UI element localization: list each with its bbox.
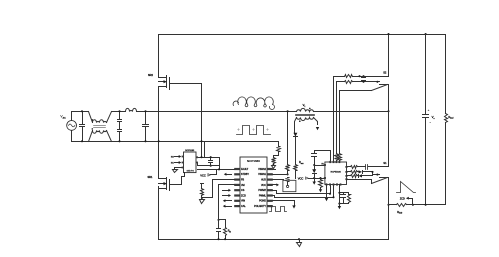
svg-text:VM: VM xyxy=(241,184,245,187)
resistor R9 kelvin xyxy=(339,161,341,163)
svg-text:ZCD: ZCD xyxy=(399,213,403,215)
svg-text:SR2: SR2 xyxy=(148,73,154,77)
svg-text:VSNS2: VSNS2 xyxy=(258,168,267,171)
svg-text:ZCD: ZCD xyxy=(400,197,405,200)
resistor R4 line-N sense lower xyxy=(272,158,276,164)
capacitor C6 boot at S2 xyxy=(363,77,365,78)
wire: +output top rail xyxy=(159,34,446,36)
svg-text:CAL: CAL xyxy=(241,205,246,208)
ground at R7 xyxy=(319,189,322,192)
wire: AC line-L after choke xyxy=(112,111,126,113)
wire: fast leg switch node to S1 xyxy=(388,112,390,167)
capacitor C8 at U2 VSS xyxy=(343,193,345,195)
wire: SR2 gate net vertical xyxy=(201,84,203,158)
ground at U3 xyxy=(173,170,178,173)
arrow into U3 IN1 xyxy=(175,162,179,164)
svg-text:PWML: PWML xyxy=(259,194,267,197)
wire: U2 row to S1 drain bar xyxy=(347,166,351,168)
wire: slow-leg bottom (SR1 source to bottom rail) xyxy=(158,187,160,240)
resistor R11 S2 boot row xyxy=(334,76,345,78)
node: switch node at fast leg xyxy=(387,110,389,112)
svg-text:VCC: VCC xyxy=(261,184,266,187)
resistor R6 VM filter xyxy=(219,220,226,228)
CMC core xyxy=(94,126,106,128)
wire: bottom rail riser xyxy=(388,205,390,240)
svg-text:VCC: VCC xyxy=(200,174,206,178)
node: S2 drain at top rail xyxy=(387,33,389,35)
wire: VCC rail mid xyxy=(197,163,220,166)
arrow out of VCC pin xyxy=(273,184,277,186)
capacitor C4 VM filter xyxy=(218,220,220,229)
wire: U2 bottom pin1 xyxy=(326,185,328,198)
capacitor CX1 across line xyxy=(82,112,84,142)
svg-text:AC: AC xyxy=(63,116,66,119)
arrow out of VIN pin xyxy=(226,200,232,202)
wire: VCC rail upper xyxy=(197,157,220,159)
node: VM filter xyxy=(217,219,219,221)
node: top rail at Vo xyxy=(425,33,427,35)
svg-text:S2: S2 xyxy=(383,71,387,75)
capacitor C2 decoupling xyxy=(210,158,212,160)
wire: U2 boot rail vertical xyxy=(333,77,335,163)
arrow out of CAL pin xyxy=(226,206,232,208)
source VAC xyxy=(71,112,73,142)
svg-text:o: o xyxy=(434,118,435,120)
ground at U2 VSS xyxy=(339,204,341,207)
CMC polarity dots xyxy=(92,119,94,121)
svg-text:IN1: IN1 xyxy=(171,162,174,164)
wire: line-L to boost inductor xyxy=(137,111,235,113)
resistor Raux xyxy=(294,165,298,171)
U3 pin stubs xyxy=(182,156,184,158)
svg-text:S1: S1 xyxy=(383,161,387,165)
wire: PWMH route to driver xyxy=(273,185,331,194)
resistor R14 at U2 VSS xyxy=(348,193,350,195)
svg-text:GND PG: GND PG xyxy=(187,171,195,173)
svg-text:STDBY: STDBY xyxy=(241,173,249,176)
wire: aux vertical from AC-N xyxy=(204,142,206,158)
wire: bottom return rail xyxy=(159,239,389,241)
svg-text:ZCD: ZCD xyxy=(241,194,246,197)
svg-text:FB: FB xyxy=(241,178,244,181)
transistor SR2 xyxy=(159,77,167,79)
wire: VM route xyxy=(219,185,235,220)
arrow into CS pin xyxy=(223,190,229,192)
svg-text:VSNS1: VSNS1 xyxy=(258,173,267,176)
wire: V1 secondary left lead xyxy=(295,118,297,133)
node: AC-N to SR half-bridge midpoint xyxy=(158,140,160,142)
resistor R10 S2 gate row xyxy=(337,81,345,83)
wire: VCC jog to FAULT row xyxy=(211,170,217,175)
wire: AUX row to probe box xyxy=(273,179,284,181)
wire: line-L under boost inductor xyxy=(235,111,297,113)
probe box xyxy=(283,180,296,191)
resistor R2b line-L sense lower xyxy=(286,178,290,182)
resistor Rzcd xyxy=(389,204,397,206)
resistor R13 S1 gate xyxy=(347,175,351,177)
arrow into STDBY pin xyxy=(227,174,232,176)
svg-text:1: 1 xyxy=(304,106,305,108)
wire: boot rail to gate net xyxy=(315,151,331,163)
ground at bottom rail xyxy=(298,238,300,240)
svg-text:NCP1680: NCP1680 xyxy=(247,159,260,163)
arrow terminal into VSNS2 row xyxy=(272,166,276,169)
svg-text:+: + xyxy=(428,108,430,112)
capacitor CY1 upper xyxy=(119,112,121,120)
transistor S1 xyxy=(380,166,389,168)
transformer V1 secondary xyxy=(297,118,314,121)
svg-text:FAULT: FAULT xyxy=(241,168,249,171)
wire: VSNS2 row xyxy=(273,169,276,171)
diode D2 bootstrap xyxy=(314,157,316,170)
svg-text:IN2: IN2 xyxy=(171,156,174,158)
wire: slow-leg mid (SR2 source to AC-N node and SR1 drain) xyxy=(158,88,160,179)
wire: V1 secondary right lead xyxy=(314,118,318,125)
op-amp U1 NCP1680 body xyxy=(240,157,267,213)
capacitor CF across lines xyxy=(145,112,147,142)
wire: AC line-N from source to SR midpoint and divider xyxy=(72,141,279,143)
svg-text:VIN: VIN xyxy=(241,200,245,203)
waveform: switch-node square wave xyxy=(237,126,271,135)
ground at VCC node xyxy=(314,179,316,182)
capacitor C9 output Vo xyxy=(425,35,427,115)
ground at V1 secondary xyxy=(316,127,319,130)
svg-text:VCC: VCC xyxy=(298,177,304,181)
inductor L1 boost xyxy=(233,97,274,110)
inductor LF in line-L xyxy=(126,108,137,111)
wire: S2 kelvin row xyxy=(340,90,372,92)
op-amp U3 SR driver body xyxy=(184,152,197,173)
node: PWMH at driver xyxy=(329,193,331,195)
svg-text:PGND: PGND xyxy=(259,200,266,203)
wire: U3 gnd pin xyxy=(175,168,182,170)
svg-text:CS: CS xyxy=(241,189,245,192)
svg-text:SR1: SR1 xyxy=(147,175,153,179)
wire: FAULT row xyxy=(198,169,235,171)
wire: PGND route xyxy=(273,201,295,206)
capacitor C5 bootstrap xyxy=(314,151,316,154)
op-amp U2 gate driver body xyxy=(325,162,347,185)
ground at PGND xyxy=(292,205,295,208)
wire: line-L from CT to fast leg xyxy=(314,111,389,113)
wire: PWML route to driver xyxy=(273,185,334,198)
wire: VB to U2 xyxy=(315,165,325,167)
diode D1 aux xyxy=(293,133,297,137)
arrow into ZCD pin xyxy=(223,195,229,197)
transistor SR1 xyxy=(159,178,167,180)
svg-text:NCP51820: NCP51820 xyxy=(331,172,342,174)
resistor R8 gate xyxy=(336,161,338,163)
inductor CMC common-mode choke winding top xyxy=(89,112,93,123)
svg-text:PWMH: PWMH xyxy=(258,189,266,192)
capacitor C7 in S1 top row xyxy=(366,165,368,170)
svg-text:aux: aux xyxy=(301,163,304,165)
U1 pin stubs xyxy=(234,168,240,170)
wire: VCC rail right vertical xyxy=(219,158,221,170)
resistor R7 at VDD xyxy=(320,179,322,180)
wire: S1 gate junction vertical xyxy=(372,172,374,175)
ground at FB divider xyxy=(200,200,205,204)
svg-text:POLARITY: POLARITY xyxy=(254,205,266,208)
transformer V1 core xyxy=(296,115,315,116)
wire: VCC to U2 VDD xyxy=(309,178,325,180)
diode D3 S1 gate xyxy=(359,170,363,173)
wire: SR1 gate xyxy=(170,173,185,185)
svg-text:M: M xyxy=(229,231,231,233)
ground at U2 pin1 xyxy=(325,198,328,201)
inductor CMC common-mode choke winding bottom xyxy=(89,131,93,142)
svg-text:−: − xyxy=(430,122,432,125)
waveform: ZCD ramp xyxy=(397,182,416,193)
arrow into U3 IN2 xyxy=(175,156,179,158)
U2 pin stubs xyxy=(329,161,331,163)
transformer V1 primary xyxy=(297,108,314,111)
resistor R2 line-L sense upper xyxy=(287,112,289,165)
transistor S2 xyxy=(388,35,390,77)
node: PWML at driver xyxy=(332,196,334,198)
wire: AC line-L from source to filter xyxy=(72,111,89,113)
wire: U2 kelvin row to S1 xyxy=(347,180,372,184)
svg-text:AUX: AUX xyxy=(261,178,266,181)
wire: FB route xyxy=(202,180,235,198)
waveform: POLARITY square wave xyxy=(270,207,287,212)
wire: S1 gate tap xyxy=(373,174,380,176)
V1 polarity dots xyxy=(309,108,311,110)
resistor R5 FB divider xyxy=(201,184,204,189)
wire: slow-leg top (SR2 drain to top rail) xyxy=(158,35,160,78)
resistor Rload xyxy=(445,35,447,114)
diode D4 S1 gate xyxy=(359,174,363,177)
wire: VSNS1 row xyxy=(273,174,288,176)
resistor R3 line-N sense upper xyxy=(278,142,280,147)
wire: SR2 gate xyxy=(170,83,202,85)
svg-text:NCP5183: NCP5183 xyxy=(185,150,195,152)
resistor R12 S1 gate xyxy=(347,171,351,173)
capacitor CY2 lower xyxy=(118,130,122,132)
wire: U2 VSS branch xyxy=(339,185,341,204)
svg-text:load: load xyxy=(450,118,453,120)
